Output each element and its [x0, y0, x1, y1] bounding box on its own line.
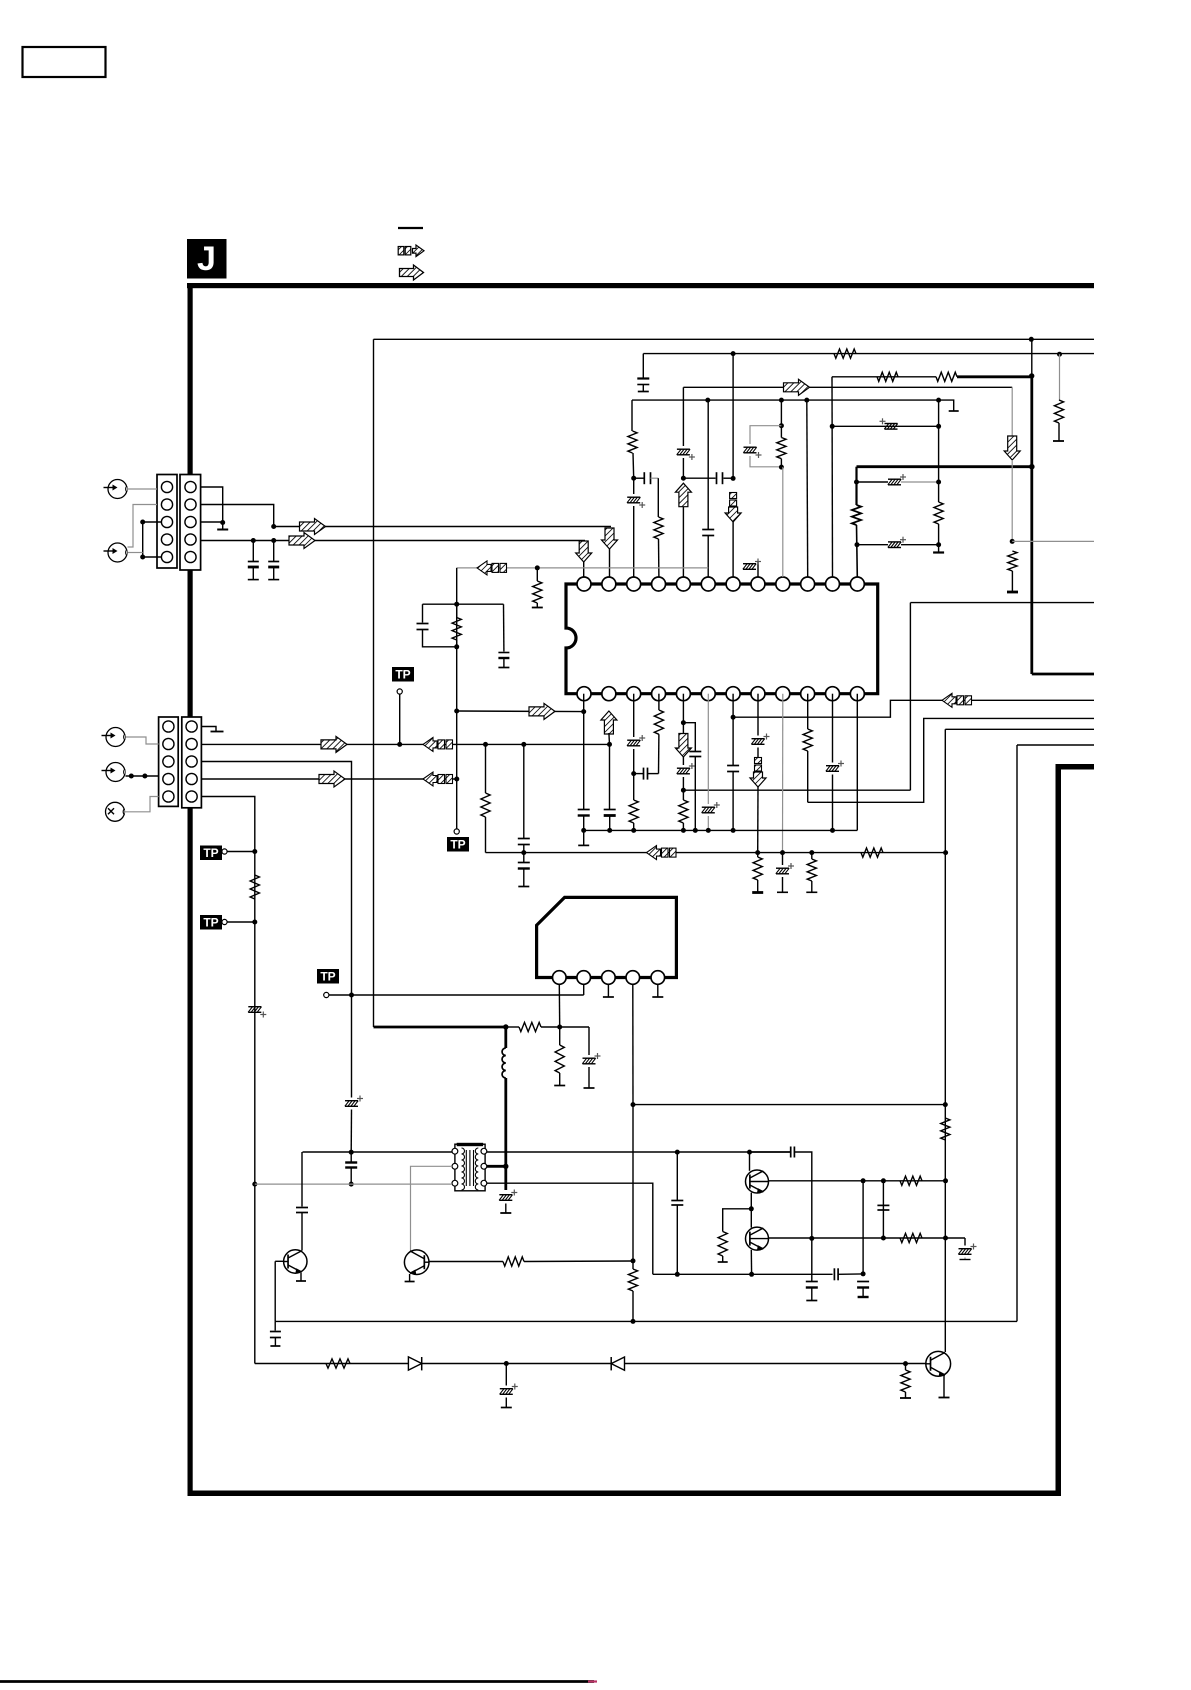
signal arrow on W4 [319, 771, 345, 787]
Q1 emitter ground [296, 1273, 306, 1281]
junction [349, 993, 354, 998]
IC U1 body [566, 584, 878, 694]
svg-text:J: J [197, 240, 216, 278]
junction [861, 1178, 866, 1183]
pin2 column [608, 733, 611, 744]
connector CN1 pins [161, 481, 196, 562]
capacitor C5 pin3-pin4 link [634, 472, 659, 484]
junction [830, 828, 835, 833]
junction [631, 1258, 636, 1263]
junction [251, 538, 256, 543]
junction [675, 1272, 680, 1277]
pin7 column [732, 694, 734, 766]
junction [271, 538, 276, 543]
junction [140, 555, 145, 560]
wire pin12 lower [856, 525, 859, 577]
junction [855, 542, 860, 547]
junction [903, 1361, 908, 1366]
capacitor C9 at N353 left end [637, 354, 649, 392]
resistor R12 to ground [1007, 551, 1018, 592]
wire CN2 row3 down to IC2 [202, 762, 352, 996]
junction [631, 1319, 636, 1324]
pin8 stub with polarized capacitor C12 [743, 559, 761, 578]
svg-text:TP: TP [450, 838, 465, 852]
connector CN1 housing [157, 475, 201, 571]
junction [936, 398, 941, 403]
driver column x456 [456, 568, 458, 829]
junction [220, 520, 225, 525]
divider column x939 [938, 400, 940, 502]
polarized capacitor C4 on pin3 column [627, 478, 645, 577]
junction [830, 424, 835, 429]
pin4 column resistor R13 [654, 694, 663, 774]
arrow into IC1 pin2 [602, 528, 618, 549]
diode D1 [408, 1357, 421, 1371]
transistor Q5 [746, 1227, 769, 1250]
capacitor C22 on pin7 column [727, 766, 739, 831]
offpage arrow 00 on W3 [423, 737, 453, 751]
signal arrow on W1 [300, 519, 326, 535]
transistor Q2 [404, 1250, 429, 1275]
IC2 pin2 wire to N995 [583, 984, 585, 995]
Q5 base wire N1238 [768, 1237, 965, 1239]
resistor R11 [934, 502, 943, 524]
junction [129, 774, 134, 779]
junction [943, 1178, 948, 1183]
wire stub to IC1 pin2 [609, 549, 611, 577]
wire N802 up to edge [808, 718, 1094, 802]
IC2 pin5 ground [652, 984, 663, 997]
gray branch with polarized capacitor C11 [743, 426, 781, 467]
junction [731, 715, 736, 720]
page border top [187, 283, 1094, 288]
junction [881, 1178, 886, 1183]
IC U1 top pins [577, 577, 864, 591]
polarized capacitor C27 on N852 [776, 853, 794, 893]
junction [675, 1150, 680, 1155]
junction [397, 742, 402, 747]
resistor R19 on N852 [752, 853, 763, 893]
junction [681, 828, 686, 833]
bus corner bold to edge [1032, 673, 1094, 676]
bold feed wire N377 to bus [957, 375, 1032, 378]
inner box top wire [374, 338, 1095, 340]
RC network wire [423, 603, 504, 605]
CN2 row1 chassis ground [202, 727, 224, 732]
junction [535, 565, 540, 570]
wire N790 [683, 789, 910, 791]
main drop column x945 [944, 729, 946, 1352]
pin5 column: polarized capacitor C6 [677, 387, 695, 478]
wire W4 from CN2 row4 [202, 778, 457, 780]
resistor R21 [452, 604, 461, 647]
wire N1027 bold segment [374, 1026, 506, 1029]
junction [503, 1024, 508, 1029]
junction [681, 720, 686, 725]
page border bottom [188, 1491, 1061, 1497]
wire N852 [486, 852, 946, 854]
legend arrow with 00 [398, 245, 424, 257]
resistor R5 to ground right [1053, 354, 1064, 441]
pin7 column upper [732, 354, 734, 479]
big signal arrow [529, 703, 555, 719]
offpage arrow 00 on N852 [647, 846, 677, 860]
transistor Q1 [284, 1250, 307, 1273]
resistor R26 on N1363 [326, 1359, 350, 1368]
pin9 column upper resistor R8 [777, 400, 786, 467]
Q4 base wire N1180 [768, 1180, 946, 1182]
resistor R29 on N1180 [900, 1176, 922, 1185]
pin3 column polarized capacitor C17 [627, 694, 645, 774]
offpage arrow 00 on W4 [423, 772, 453, 786]
wire N1183 right [487, 1183, 653, 1274]
junction [631, 1102, 636, 1107]
junction [755, 850, 760, 855]
link N482 with polarized capacitor C13 [857, 474, 939, 485]
junction [936, 424, 941, 429]
inner box left wire [373, 339, 375, 1027]
resistor R17 on N852 [861, 848, 883, 857]
resistor R23 below pin1 node [554, 1027, 565, 1086]
Q5 emitter link [750, 1250, 752, 1274]
IC2 pin3 ground [603, 984, 614, 997]
junction [581, 828, 586, 833]
Q2 emitter ground [405, 1274, 415, 1282]
signal arrow on W2 [289, 533, 315, 549]
capacitor C29 to ground [498, 604, 509, 667]
junction [779, 398, 784, 403]
junction [943, 1102, 948, 1107]
wire into pin1 from driver [457, 710, 584, 713]
wire pin5 lower stub [682, 507, 684, 577]
capacitor C34 [671, 1152, 683, 1274]
pin1 column with capacitor C15 [578, 694, 590, 831]
polarized capacitor C38 [958, 1238, 976, 1260]
junction [809, 850, 814, 855]
junction [936, 542, 941, 547]
jack J1 lead wire [127, 488, 157, 490]
resistor R20 on N852 [806, 853, 817, 893]
pin5 column resistor R15 [679, 790, 688, 830]
bus vertical bold [1030, 376, 1033, 674]
polarized capacitor C19 [677, 757, 695, 790]
Q4 collector stub [749, 1152, 751, 1171]
down arrow on pin5 column [675, 734, 691, 758]
column x883 capacitor C43 [877, 1181, 889, 1238]
pin10 column [806, 400, 809, 577]
gray drop line x1012 with down arrow [1004, 387, 1020, 541]
bold rail N466 [857, 465, 1032, 468]
wire N717 to right edge [733, 700, 1094, 717]
transformer T1 terminals [452, 1148, 487, 1186]
arrow into IC1 pin1 [576, 541, 592, 562]
junction [140, 520, 145, 525]
polarized capacitor C30 [582, 1027, 600, 1088]
transistor Q3 [926, 1351, 951, 1376]
CN1 ground tie wire [128, 522, 161, 557]
wire stub to IC1 pin1 [583, 562, 585, 577]
resistor R27 [900, 1364, 911, 1398]
RCA jack J3 [102, 728, 126, 747]
capacitor C18 link pin3-pin4 columns [634, 768, 659, 780]
gray wire N1184 [255, 1183, 452, 1185]
resistor R3 on pin4 column [654, 478, 663, 577]
junction [1029, 464, 1035, 470]
test point TP4 [447, 829, 469, 852]
junction [454, 777, 459, 782]
junction [780, 850, 785, 855]
resistor R10 on pin12 column [852, 505, 861, 525]
column x352 polarized capacitor C32 [345, 995, 363, 1152]
junction [454, 644, 459, 649]
wire N353 [643, 353, 1094, 355]
bus vertical thin top [1031, 339, 1033, 376]
capacitor C41 to ground [806, 1282, 818, 1301]
pin12 column lower [856, 694, 858, 831]
signal arrow on W3 [321, 736, 347, 752]
junction [503, 1164, 508, 1169]
junction [854, 480, 859, 485]
inter-transistor link [750, 1193, 752, 1228]
resistor R7 on N377 [936, 372, 957, 381]
junction [521, 850, 526, 855]
junction [142, 774, 147, 779]
junction [1010, 539, 1015, 544]
junction [581, 709, 586, 714]
bold tap stub [487, 1165, 506, 1168]
test point TP1 [200, 846, 255, 861]
resistor R6 on N377 [877, 372, 898, 381]
wire N400 [632, 399, 939, 401]
junction [943, 850, 948, 855]
offpage arrow 00 on N700 [942, 693, 972, 707]
offpage arrow 00 on N568 [477, 561, 507, 575]
capacitor C1 [248, 541, 259, 580]
resistor R28 on x945 column [941, 1118, 950, 1140]
resistor R9 to ground [532, 568, 543, 608]
transistor Q4 [746, 1170, 769, 1193]
wire N602 [910, 602, 1094, 604]
junction [607, 828, 612, 833]
resistor R24 [628, 1269, 637, 1321]
junction [271, 524, 276, 529]
svg-text:TP: TP [203, 916, 218, 930]
section label J [187, 239, 227, 279]
driver column x485: resistor R18 [481, 744, 490, 852]
wire N1104 [633, 1104, 945, 1106]
pin9 column lower (gray) [782, 467, 784, 577]
junction [731, 351, 736, 356]
pin11 column polarized capacitor C24 [826, 694, 844, 831]
capacitor C28 [417, 604, 457, 647]
resistor R31 on N1238 [900, 1233, 922, 1242]
jack J5 lead [125, 797, 159, 812]
junction [631, 476, 636, 481]
junction [936, 480, 941, 485]
wire to ground [933, 524, 944, 553]
test point TP5 [392, 667, 414, 744]
connector CN2 housing [159, 717, 202, 808]
wire N995 [352, 994, 584, 996]
arrow up into pin2 [601, 711, 617, 734]
column x863 capacitor C42 [857, 1181, 869, 1297]
junction [1029, 337, 1034, 342]
junction [943, 1236, 948, 1241]
pin8 column polarized capacitor C23 [751, 694, 769, 762]
resistor R1 [250, 875, 259, 899]
ground bus N830 [584, 829, 858, 831]
offpage 00 down-arrow on pin8 column [750, 758, 766, 788]
wire N1152 left [303, 1151, 453, 1153]
ground [217, 529, 228, 531]
section border right top bar [1056, 764, 1095, 770]
pin10 column resistor R16 [803, 694, 812, 803]
wire N426 [832, 425, 938, 427]
junction [349, 1182, 354, 1187]
wire CN2 row5 down left rail [202, 797, 255, 1364]
page border left [188, 283, 193, 1496]
polarized capacitor C37 [500, 1364, 518, 1408]
pin9 column lower gray [782, 694, 784, 853]
wire W1 chroma from CN1 row2 [201, 505, 274, 527]
page bottom rule [0, 1680, 594, 1683]
IC2 pin1 stub [558, 984, 560, 1027]
wire W1 run to IC1 pin2 [274, 526, 611, 528]
junction [1029, 373, 1034, 378]
pin8 column lower [757, 787, 759, 853]
wire N1321 [275, 1320, 1017, 1322]
wire pin7 stub [732, 522, 734, 577]
junction [252, 920, 257, 925]
junction [705, 398, 710, 403]
IC U2 body [537, 897, 677, 977]
pin2 column capacitor C16 [604, 744, 616, 830]
polarized capacitor C10 on N426 [880, 418, 898, 429]
feedback capacitor C40 [750, 1147, 812, 1282]
junction [779, 465, 784, 470]
wire N729 to right edge [945, 728, 1094, 730]
resistor R22 on N1027 [506, 1022, 560, 1031]
legend hatched arrow [400, 265, 424, 280]
polarized capacitor C31 [499, 1190, 517, 1214]
pin12 column upper [855, 467, 857, 505]
gray feed to Q2 [411, 1166, 453, 1251]
wire N387 from pin5 column [683, 386, 1012, 388]
bold rail x505 down [504, 1027, 507, 1190]
signal arrow on N387 [784, 379, 810, 395]
junction [349, 1150, 354, 1155]
junction [731, 476, 736, 481]
pin3 column resistor R14 [629, 774, 638, 831]
jack J4 lead [126, 775, 159, 777]
junction [252, 849, 257, 854]
wire N1363 [255, 1363, 926, 1365]
junction [521, 742, 526, 747]
RCA jack J5 [106, 802, 125, 821]
IC2 pin4 column lower [632, 1105, 634, 1269]
pin11 column [831, 377, 834, 577]
connector CN2 pins [163, 721, 197, 802]
wire W2 video from CN1 row4 [201, 540, 585, 542]
gray preset wire N568 [457, 567, 709, 569]
ground stub on N400 [939, 400, 959, 411]
junction [504, 1361, 509, 1366]
junction [881, 1236, 886, 1241]
junction [706, 828, 711, 833]
section border right vertical [1056, 764, 1062, 1496]
test point TP3 [317, 969, 352, 998]
drop column x910 [909, 603, 911, 791]
wire N377 [832, 376, 936, 378]
wire N1274 with capacitor C39 [653, 1268, 863, 1280]
capacitor C36 at N1321 left [270, 1321, 281, 1346]
Q1 collector with capacitor C35 [296, 1152, 308, 1251]
wire N1027 to cap branch [560, 1026, 589, 1028]
junction [747, 1150, 752, 1155]
IC2 pin4 column [632, 984, 634, 1104]
link N544 with polarized capacitor C14 [857, 537, 939, 548]
Q2 output wire with resistor R25 [429, 1257, 633, 1266]
wire N1152 right [487, 1151, 791, 1153]
capacitor C2 [268, 541, 279, 580]
capacitor C26 to ground [518, 853, 530, 887]
junction [749, 1272, 754, 1277]
right drop column x1017 [1016, 745, 1018, 1321]
wire CN1 row1 to ground [201, 487, 223, 529]
junction [681, 476, 686, 481]
page bottom rule colored tick [588, 1680, 597, 1682]
Q1 base wire [275, 1261, 283, 1321]
bias branch resistor R30 [718, 1209, 752, 1262]
junction [557, 1025, 562, 1030]
junction [631, 771, 636, 776]
pin5 column [682, 694, 684, 734]
wire CN1 row3 to ground [201, 521, 223, 523]
svg-text:TP: TP [320, 970, 335, 984]
resistor R4 on N353 [834, 349, 856, 358]
junction [1057, 352, 1062, 357]
pin3 column upper: resistor R2 [628, 400, 637, 478]
wire W3 from CN2 row2 [202, 743, 610, 745]
inductor L1 [502, 1048, 506, 1078]
junction [693, 828, 698, 833]
wire N541 gray to edge [1012, 540, 1094, 542]
capacitor C7 pin5-pin7 link [683, 472, 733, 484]
Q3 emitter ground [939, 1375, 950, 1398]
pin1 net ground stub [578, 830, 589, 845]
junction [252, 1182, 257, 1187]
junction [681, 788, 686, 793]
pin6 column with capacitor C8 [702, 400, 714, 577]
branch with capacitor C20 [683, 723, 701, 831]
junction [607, 742, 612, 747]
test point TP2 [200, 915, 255, 930]
legend wire sample [398, 227, 423, 229]
RCA jack J4 [102, 763, 126, 782]
transformer T1 body [455, 1143, 485, 1191]
column x523 capacitor C25 [518, 744, 530, 852]
junction [809, 1236, 814, 1241]
junction [454, 709, 459, 714]
capacitor C33 [345, 1152, 357, 1184]
polarized capacitor C3 [248, 1007, 266, 1018]
junction [804, 398, 809, 403]
junction [483, 742, 488, 747]
diode D2 [611, 1357, 624, 1370]
wire N745 to right edge [1017, 744, 1094, 746]
RCA jack J2 [104, 543, 128, 562]
junction [779, 423, 784, 428]
